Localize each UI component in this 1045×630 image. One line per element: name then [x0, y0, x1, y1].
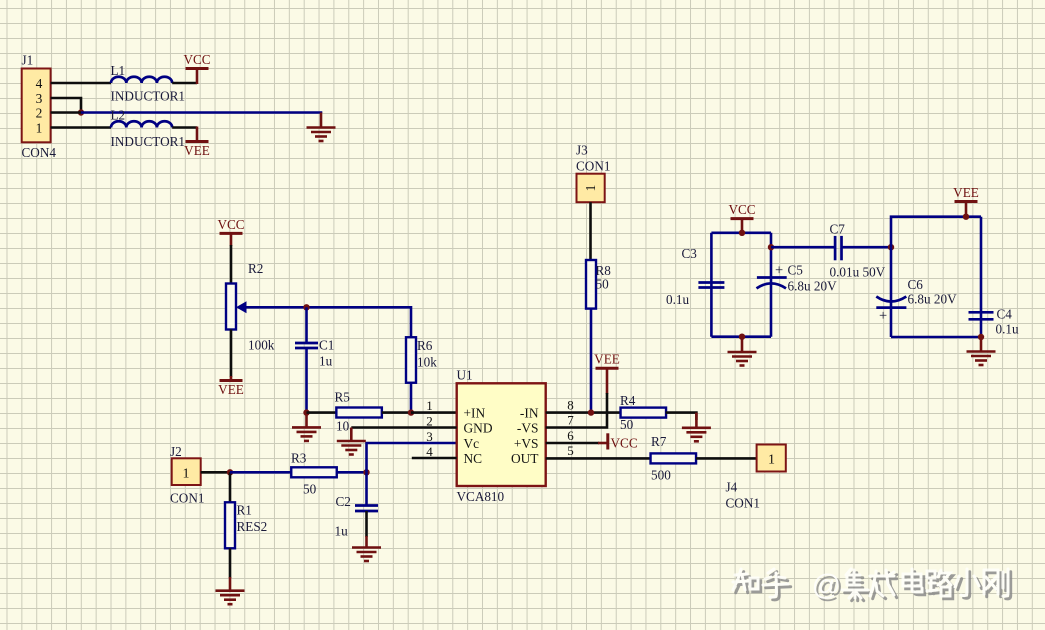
svg-text:1u: 1u [335, 524, 349, 539]
svg-text:500: 500 [651, 468, 671, 483]
wire R8 to pin8 node [590, 309, 593, 413]
connector J1 CON4 body [22, 69, 51, 143]
svg-text:R2: R2 [248, 261, 263, 276]
wire C5 right branch [770, 233, 773, 337]
junction wiper-C1 node [303, 304, 309, 310]
svg-text:6: 6 [567, 428, 574, 443]
wire C3 loop top [711, 232, 771, 235]
power VEE at U1 pin 7 [594, 352, 620, 369]
svg-text:CON1: CON1 [726, 496, 760, 511]
svg-text:INDUCTOR1: INDUCTOR1 [111, 134, 186, 149]
ground at R1 [216, 577, 245, 604]
svg-text:R7: R7 [651, 434, 667, 449]
svg-text:VCC: VCC [217, 217, 244, 232]
junction J2-R1-R3 node [227, 469, 233, 475]
wire VCC stub at pin 6 [598, 442, 608, 445]
connector J3 CON1 body [577, 174, 605, 203]
wire C3 left branch [710, 233, 713, 337]
wire C4 branch [980, 217, 983, 337]
junction C4 ground node [978, 334, 984, 340]
resistor R8 [586, 260, 596, 309]
wire R1 bottom to ground [229, 548, 232, 578]
svg-text:VCC: VCC [728, 202, 755, 217]
wire U1 pin 4 stub [412, 457, 457, 460]
svg-text:1: 1 [36, 121, 43, 136]
power VCC at U1 pin 6 [608, 433, 638, 450]
wire C7 to C6 node [842, 246, 892, 249]
svg-text:VEE: VEE [184, 143, 210, 158]
svg-text:OUT: OUT [511, 451, 539, 466]
wire J1 pin 4 to L1 [51, 82, 111, 85]
wire U1 pin 1 [411, 411, 457, 414]
svg-text:VEE: VEE [594, 352, 620, 367]
svg-text:J2: J2 [170, 444, 182, 459]
svg-text:100k: 100k [248, 338, 275, 353]
svg-text:1: 1 [583, 185, 598, 192]
ground at J1 pin 2 [307, 113, 336, 142]
svg-text:R4: R4 [620, 393, 636, 408]
svg-text:Vc: Vc [464, 436, 480, 451]
svg-text:C1: C1 [319, 338, 334, 353]
svg-text:J3: J3 [576, 143, 588, 158]
junction VCC-C3 top node [739, 230, 745, 236]
svg-text:6.8u 20V: 6.8u 20V [788, 279, 838, 294]
svg-text:INDUCTOR1: INDUCTOR1 [111, 89, 186, 104]
wire C1 bottom to R5 node [305, 348, 308, 413]
junction VEE top node [963, 214, 969, 220]
wire U1 pin 6 [546, 442, 599, 445]
svg-text:VCA810: VCA810 [457, 489, 505, 504]
svg-text:0.1u: 0.1u [996, 322, 1019, 337]
resistor R4 [621, 408, 667, 418]
svg-text:J4: J4 [726, 480, 738, 495]
wire R7 to J4 [696, 457, 757, 460]
svg-text:C4: C4 [997, 307, 1013, 322]
power VEE at L2 [184, 142, 210, 159]
wire U1 pin 5 to R7 [546, 457, 651, 460]
svg-text:R1: R1 [237, 503, 252, 518]
wire VEE riser [606, 368, 609, 394]
wire U1 pin 8 [546, 411, 621, 414]
capacitor C7 [835, 236, 841, 260]
connector J4 CON1 body [757, 445, 786, 472]
svg-text:U1: U1 [457, 368, 473, 383]
svg-text:L1: L1 [111, 63, 126, 78]
svg-text:C6: C6 [908, 277, 924, 292]
wire C6 loop bottom [891, 336, 981, 339]
wire node to R3 [230, 471, 292, 474]
wire L1 to VCC [172, 82, 197, 85]
resistor R5 [336, 408, 382, 418]
wire C2 bottom to ground [365, 511, 368, 537]
junction C5-C7 node [768, 244, 774, 250]
wire VEE riser right [965, 202, 968, 217]
junction R8-pin8 node [588, 409, 594, 415]
svg-text:C3: C3 [682, 246, 698, 261]
op-amp U1 VCA810 body [457, 383, 546, 486]
wire R4 to ground [666, 413, 697, 420]
inductor L1 [111, 77, 172, 83]
wire R1 top [229, 472, 232, 502]
wire U1 pin 2 to ground [351, 426, 456, 429]
R2 wiper arrow [236, 301, 247, 313]
wire L2 to VEE [172, 126, 197, 129]
power VCC at L1 [183, 52, 210, 69]
junction R3-C2-pin3 node [363, 469, 369, 475]
wire J1 pin 2 to ground [81, 111, 321, 114]
ground at C3 loop [728, 337, 757, 366]
svg-text:10k: 10k [417, 355, 437, 370]
svg-text:R3: R3 [291, 451, 307, 466]
svg-text:1u: 1u [319, 354, 333, 369]
junction C7-C6 node [888, 244, 894, 250]
svg-text:C5: C5 [788, 263, 804, 278]
svg-text:+: + [879, 308, 887, 324]
svg-text:-VS: -VS [517, 421, 539, 436]
junction R5-R6-pin1 node [408, 409, 414, 415]
wire VEE riser at L2 [196, 127, 199, 142]
svg-text:+IN: +IN [464, 406, 486, 421]
ground at U1 pin 2 [337, 428, 366, 455]
wire J1 pin 1 to L2 [51, 126, 111, 129]
svg-text:C2: C2 [336, 494, 351, 509]
svg-text:CON1: CON1 [170, 491, 204, 506]
power VEE right side [953, 185, 979, 202]
wire VCC riser at L1 [196, 69, 199, 85]
svg-text:C7: C7 [830, 222, 846, 237]
svg-text:VEE: VEE [953, 185, 979, 200]
resistor R1 [225, 502, 235, 548]
capacitor C5 (polarized) [757, 278, 787, 289]
ground at C1/R5 node [292, 413, 321, 441]
capacitor C1 [295, 343, 318, 348]
svg-text:8: 8 [567, 398, 574, 413]
wire J2 to R1 node [201, 471, 230, 474]
wire VEE to pin 7 [546, 393, 607, 428]
resistor R3 [291, 467, 337, 477]
resistor R6 [406, 337, 416, 383]
svg-text:0.01u 50V: 0.01u 50V [830, 265, 886, 280]
wire VCC to R2 riser [230, 233, 233, 246]
wire J1 pin 3 stub [51, 98, 81, 113]
ground at R4 [682, 413, 711, 442]
svg-text:R6: R6 [417, 338, 433, 353]
svg-text:3: 3 [426, 429, 433, 444]
wire R3 to C2 node [336, 471, 366, 474]
svg-text:1: 1 [426, 398, 433, 413]
svg-text:R5: R5 [335, 390, 351, 405]
capacitor C6 (polarized) [876, 297, 906, 308]
power VCC at C3 [728, 202, 755, 219]
wire node to R5 [307, 411, 337, 414]
svg-text:1: 1 [183, 467, 190, 482]
svg-text:L2: L2 [111, 108, 126, 123]
power VCC at R2 [217, 217, 244, 234]
svg-text:50: 50 [620, 417, 634, 432]
svg-text:4: 4 [36, 76, 43, 91]
wire riser to R2 top [230, 245, 233, 284]
svg-text:-IN: -IN [520, 406, 539, 421]
svg-text:VCC: VCC [611, 436, 638, 451]
inductor L2 [111, 121, 172, 127]
svg-text:2: 2 [36, 106, 43, 121]
wire C6 branch [890, 247, 893, 337]
svg-text:7: 7 [567, 413, 574, 428]
wire R6 bottom to pin1 node [410, 382, 413, 412]
connector J2 CON1 body [172, 458, 201, 485]
capacitor C4 [969, 312, 994, 319]
wire R2 wiper to R6 top [243, 307, 411, 338]
junction C1-R5-ground node [303, 409, 309, 415]
svg-text:J1: J1 [22, 53, 34, 68]
junction C3 loop ground node [739, 334, 745, 340]
capacitor C3 [698, 283, 724, 288]
watermark Zhihu @ jichengdianlu-xiaogang (embossed gray CJK strokes) [733, 569, 1011, 604]
svg-text:RES2: RES2 [237, 519, 268, 534]
ground at C2 [352, 536, 381, 561]
svg-text:10: 10 [336, 419, 350, 434]
potentiometer R2 [226, 284, 236, 330]
wire C1 top branch [305, 307, 308, 343]
wire VEE riser at R2 [230, 376, 233, 381]
svg-text:50: 50 [303, 482, 317, 497]
wire C6 loop top-left [891, 217, 981, 248]
wire node to C7 [771, 246, 835, 249]
svg-text:+VS: +VS [514, 436, 539, 451]
wire node up to U1 pin 3 [367, 443, 457, 472]
wire R2 bottom to VEE [230, 329, 233, 377]
svg-text:0.1u: 0.1u [666, 292, 689, 307]
power VEE at R2 [218, 381, 244, 398]
svg-text:1: 1 [768, 453, 775, 468]
svg-text:+: + [775, 263, 783, 279]
svg-text:CON1: CON1 [576, 159, 610, 174]
svg-text:50: 50 [596, 277, 610, 292]
resistor R7 [651, 453, 697, 463]
svg-text:6.8u 20V: 6.8u 20V [908, 292, 958, 307]
wire R5 to pin1 node [382, 411, 411, 414]
svg-text:3: 3 [36, 91, 43, 106]
wire J3 to R8 [589, 202, 592, 260]
svg-text:@: @ [812, 570, 841, 602]
svg-text:5: 5 [567, 443, 574, 458]
svg-text:VEE: VEE [218, 382, 244, 397]
ground at C4 loop [967, 337, 996, 365]
wire C2 top [365, 472, 368, 505]
svg-text:NC: NC [464, 451, 483, 466]
svg-text:CON4: CON4 [22, 145, 57, 160]
wire VCC riser at C3 [741, 219, 744, 233]
capacitor C2 [355, 506, 378, 512]
svg-text:VCC: VCC [183, 52, 210, 67]
svg-text:GND: GND [464, 421, 493, 436]
junction node J1 pin3-pin2 [78, 109, 84, 115]
wire J1 pin 2 stub [51, 111, 81, 114]
wire C3 loop bottom [711, 335, 771, 338]
